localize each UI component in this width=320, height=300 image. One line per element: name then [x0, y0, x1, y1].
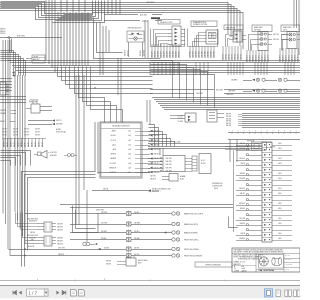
- svg-text:20B YEL: 20B YEL: [134, 247, 140, 249]
- svg-text:36B WT: 36B WT: [24, 128, 29, 130]
- svg-text:51B BLU: 51B BLU: [134, 231, 140, 233]
- svg-text:SUPPRESSOR: SUPPRESSOR: [212, 183, 223, 185]
- svg-text:4 BLU: 4 BLU: [278, 173, 282, 175]
- svg-text:51B BLU: 51B BLU: [154, 149, 160, 151]
- wire enclosures option groups: [151, 29, 218, 47]
- svg-text:51B OPN: 51B OPN: [101, 212, 107, 214]
- wire junction dots bottom lines: [24, 247, 109, 256]
- svg-text:36B/XX: 36B/XX: [0, 31, 6, 33]
- svg-text:4 BLU: 4 BLU: [278, 148, 282, 150]
- svg-text:21B TN: 21B TN: [42, 142, 44, 147]
- svg-text:54B RED: 54B RED: [134, 238, 140, 240]
- sender S1 with contact: [25, 211, 204, 217]
- wire misc verticals center: [118, 20, 148, 122]
- svg-text:34B YEL: 34B YEL: [30, 232, 36, 234]
- svg-text:53B GRN: 53B GRN: [57, 243, 63, 245]
- svg-text:4X: 4X: [234, 268, 236, 270]
- svg-text:CHECKED: CHECKED: [285, 259, 291, 261]
- svg-text:41B TN: 41B TN: [103, 189, 108, 191]
- svg-text:54B BLK: 54B BLK: [240, 173, 245, 175]
- svg-text:36B WHT: 36B WHT: [173, 51, 175, 58]
- svg-text:62B YEL: 62B YEL: [232, 54, 234, 60]
- wire left bundle B: [15, 75, 25, 244]
- label HORN ELECTRICAL: [56, 129, 66, 133]
- svg-text:FRONT HIGH (DOWN/UP): FRONT HIGH (DOWN/UP): [184, 255, 202, 257]
- svg-text:36B WHT: 36B WHT: [164, 51, 166, 58]
- svg-text:4 BLU: 4 BLU: [278, 208, 282, 210]
- svg-text:13B BLK: 13B BLK: [240, 208, 245, 210]
- wire pin row y132: [228, 130, 300, 139]
- switch group SW VOLT OPTS: [154, 20, 186, 47]
- svg-text:36B WT: 36B WT: [2, 131, 7, 133]
- svg-text:36B WT: 36B WT: [13, 131, 18, 133]
- svg-text:62B WHT: 62B WHT: [101, 231, 107, 233]
- svg-text:21B OPN: 21B OPN: [239, 148, 245, 150]
- button next-page: [56, 290, 59, 294]
- bus mid collector: [8, 61, 300, 73]
- view single-page selected: [265, 288, 273, 296]
- svg-text:21B TN: 21B TN: [11, 142, 13, 147]
- svg-text:62B TN: 62B TN: [56, 120, 62, 122]
- wire left bundle A: [3, 40, 10, 256]
- svg-text:36B YEL: 36B YEL: [226, 116, 232, 118]
- svg-text:21B BRN: 21B BRN: [231, 80, 237, 82]
- svg-text:10B OPN: 10B OPN: [166, 164, 172, 166]
- wire left corner fan into collector: [1, 51, 26, 76]
- svg-text:SENSOR: SENSOR: [109, 167, 117, 169]
- wire top mid verticals: [108, 0, 120, 14]
- svg-text:36B RED: 36B RED: [239, 238, 245, 240]
- svg-text:62B WHT: 62B WHT: [239, 203, 245, 205]
- wire staircase lower-mid: [149, 125, 175, 147]
- label tags left edge y110: [0, 110, 16, 123]
- connector left edge: [0, 82, 9, 95]
- svg-text:36B WT: 36B WT: [24, 131, 29, 133]
- junction box GRD RD HIGH AUTO: [106, 256, 147, 267]
- svg-text:138B OPN: 138B OPN: [226, 94, 233, 96]
- wire right-edge verticals: [294, 0, 299, 55]
- svg-text:21B BRN: 21B BRN: [202, 51, 204, 57]
- connector box LH DAT AND OPT: [26, 55, 45, 63]
- title block: [232, 248, 300, 272]
- wire 41B TN: [92, 187, 171, 192]
- svg-text:62B RED: 62B RED: [56, 124, 63, 126]
- svg-text:138B WHT: 138B WHT: [228, 90, 235, 92]
- wire enclosure lighting: [94, 18, 161, 76]
- wire middle staircase interchange: [151, 61, 215, 108]
- svg-text:LINE SENS: LINE SENS: [146, 2, 154, 4]
- svg-text:36B WHT: 36B WHT: [179, 51, 181, 58]
- svg-text:10B OPN: 10B OPN: [166, 158, 172, 160]
- svg-text:21B TN: 21B TN: [35, 142, 37, 147]
- svg-text:62B YEL: 62B YEL: [235, 54, 237, 60]
- connector block HI LO BLOW: [148, 148, 211, 174]
- speaker group SPEAKER OPTION: [190, 21, 218, 58]
- svg-text:4: 4: [37, 279, 38, 281]
- wire strip right leads: [272, 143, 292, 240]
- wire vertical trunk bundle upper-left: [46, 0, 88, 72]
- svg-text:36B WHT: 36B WHT: [167, 51, 169, 58]
- wire url-switch lines: [150, 90, 300, 96]
- svg-text:CLOCK2: CLOCK2: [110, 163, 116, 165]
- svg-text:53B GRN: 53B GRN: [57, 240, 63, 242]
- svg-text:72B OPN: 72B OPN: [101, 222, 107, 224]
- wire horn feed arrows: [28, 119, 63, 125]
- node labels left edge: [0, 29, 6, 36]
- svg-text:36B YEL: 36B YEL: [127, 50, 129, 56]
- diode assembly D1: [170, 113, 196, 123]
- wire interchange corners x88-104: [53, 1, 105, 23]
- svg-text:21B OPN: 21B OPN: [0, 110, 6, 112]
- svg-text:4 BLU: 4 BLU: [278, 233, 282, 235]
- svg-text:36B WHT: 36B WHT: [152, 51, 154, 58]
- svg-text:LOW OPN: LOW OPN: [50, 152, 57, 154]
- svg-text:20B YEL: 20B YEL: [104, 247, 110, 249]
- svg-text:UPPER (OVERRIDE): UPPER (OVERRIDE): [205, 265, 221, 267]
- svg-text:(OPTION): (OPTION): [254, 29, 261, 31]
- bus top main run: [0, 3, 243, 13]
- svg-text:CLOCK: CLOCK: [111, 140, 117, 142]
- relay LOW STOCK HORN OPTION: [26, 100, 52, 114]
- svg-text:54B GRN: 54B GRN: [134, 222, 140, 224]
- svg-text:53B OPN: 53B OPN: [57, 226, 63, 228]
- svg-text:36B YEL: 36B YEL: [106, 261, 112, 263]
- svg-text:56B YEL: 56B YEL: [150, 175, 156, 177]
- svg-text:21B TN: 21B TN: [14, 142, 16, 147]
- svg-text:1 / 7: 1 / 7: [29, 290, 38, 295]
- lamp group HEADLIGHT OPTION 1: [247, 25, 288, 62]
- svg-text:20B YEL: 20B YEL: [134, 254, 140, 256]
- svg-text:21B TN: 21B TN: [18, 142, 20, 147]
- label box UPPER OVERRIDE: [195, 262, 232, 267]
- wire label stack horn comb: [2, 138, 46, 147]
- svg-text:36B WT: 36B WT: [13, 128, 18, 130]
- wire top bus right bends: [228, 2, 243, 49]
- connector J1 strip: [262, 142, 272, 242]
- wire label stack right: [226, 114, 242, 128]
- wire ecu boundary: [233, 150, 235, 232]
- svg-text:36B WT: 36B WT: [35, 131, 40, 133]
- svg-text:URL SWIT: URL SWIT: [216, 90, 223, 92]
- svg-text:(ECU): (ECU): [214, 188, 219, 190]
- svg-text:= OB: = OB: [241, 266, 244, 268]
- svg-text:62B YEL: 62B YEL: [238, 54, 240, 60]
- svg-text:HIGH BLK: HIGH BLK: [50, 155, 57, 157]
- svg-text:21B BRN: 21B BRN: [190, 51, 192, 57]
- svg-text:4 BLU: 4 BLU: [278, 178, 282, 180]
- label band horn area: [2, 128, 40, 136]
- svg-text:47TY OPN: 47TY OPN: [58, 247, 65, 249]
- svg-text:36B BLK: 36B BLK: [140, 50, 142, 56]
- svg-text:4 BLU: 4 BLU: [278, 158, 282, 160]
- svg-text:21B TN: 21B TN: [28, 142, 30, 147]
- svg-text:36B WHT: 36B WHT: [239, 188, 245, 190]
- enclosure cab box: [22, 122, 151, 267]
- svg-text:21B BRN: 21B BRN: [211, 51, 213, 57]
- svg-text:21B GRN: 21B GRN: [239, 178, 245, 180]
- svg-text:4 BLU: 4 BLU: [278, 223, 282, 225]
- svg-text:GRY YEL: GRY YEL: [273, 34, 279, 36]
- fan group FAN OPTION: [223, 25, 246, 60]
- svg-text:36B WHT: 36B WHT: [161, 51, 163, 58]
- svg-text:21B TN: 21B TN: [4, 142, 6, 147]
- lamp row 138B WHT: [226, 89, 300, 96]
- bus right block y113-127: [242, 114, 300, 128]
- svg-text:4 BLU: 4 BLU: [278, 188, 282, 190]
- svg-text:21B TN: 21B TN: [21, 142, 23, 147]
- svg-text:21B BRN: 21B BRN: [193, 51, 195, 57]
- svg-text:YEL/GRN: YEL/GRN: [196, 93, 203, 95]
- svg-text:36B WT: 36B WT: [35, 128, 40, 130]
- icon previous-view: [71, 289, 77, 296]
- svg-text:36B YEL: 36B YEL: [240, 143, 246, 145]
- svg-text:51B BLU: 51B BLU: [154, 172, 160, 174]
- wire feeders to ecu: [60, 205, 233, 208]
- svg-text:(OPT): (OPT): [283, 29, 288, 31]
- svg-text:21B OPN: 21B OPN: [239, 218, 245, 220]
- wire strip left leads: [236, 143, 262, 241]
- toolbar navigation bar: [0, 285, 300, 298]
- svg-text:LOWER: LOWER: [234, 270, 239, 272]
- svg-text:62B TN: 62B TN: [240, 233, 245, 235]
- svg-text:FRONT HIGH SPEED: FRONT HIGH SPEED: [184, 249, 200, 251]
- horn H1: [34, 151, 77, 159]
- wire BUS OPN line: [0, 36, 62, 53]
- sender S5 with contact: [9, 246, 200, 252]
- wire label stack SW VOLT: [152, 44, 181, 58]
- svg-text:13B WHT: 13B WHT: [239, 158, 245, 160]
- svg-text:36B YEL: 36B YEL: [106, 264, 112, 266]
- svg-text:21B BRN: 21B BRN: [205, 51, 207, 57]
- svg-text:36B WT: 36B WT: [2, 134, 7, 136]
- sender S3 with contact: [70, 230, 199, 236]
- svg-text:BUS OPN: BUS OPN: [17, 36, 25, 38]
- bus y143-149: [148, 140, 262, 148]
- svg-text:4 BLU: 4 BLU: [278, 203, 282, 205]
- svg-text:21B TN: 21B TN: [25, 142, 27, 147]
- svg-text:4 BLU: 4 BLU: [278, 238, 282, 240]
- svg-text:1/C RED: 1/C RED: [178, 121, 184, 123]
- svg-text:GRY BLU: GRY BLU: [273, 39, 279, 41]
- relay 4WD P2 block: [27, 235, 63, 248]
- svg-text:36B YEL: 36B YEL: [226, 114, 232, 116]
- svg-text:21B TN: 21B TN: [39, 142, 41, 147]
- svg-text:GRD RD HIGH: GRD RD HIGH: [138, 260, 147, 262]
- svg-text:10B OPN: 10B OPN: [166, 161, 172, 163]
- button last-page: [62, 290, 66, 294]
- svg-text:53B OPN: 53B OPN: [57, 229, 63, 231]
- svg-text:4 BLU: 4 BLU: [278, 143, 282, 145]
- svg-text:36B YEL: 36B YEL: [226, 118, 232, 120]
- svg-text:36B WHT: 36B WHT: [158, 51, 160, 58]
- svg-text:20B YEL: 20B YEL: [240, 193, 246, 195]
- svg-text:AUXILIARY DISPLAY: AUXILIARY DISPLAY: [112, 124, 130, 127]
- svg-text:36B WT: 36B WT: [35, 134, 40, 136]
- view facing: [285, 290, 288, 296]
- svg-text:62B YEL: 62B YEL: [223, 54, 225, 60]
- svg-text:21B RED: 21B RED: [0, 113, 6, 115]
- view continuous-facing: [294, 290, 297, 296]
- status strip: [0, 298, 300, 300]
- svg-text:54B BLK: 54B BLK: [134, 212, 140, 214]
- svg-text:36B/XX: 36B/XX: [0, 29, 6, 31]
- view continuous: [276, 290, 280, 296]
- wire override link: [229, 217, 238, 228]
- svg-text:36B WHT: 36B WHT: [155, 51, 157, 58]
- svg-text:36B TN: 36B TN: [0, 121, 5, 123]
- svg-text:21B TN: 21B TN: [32, 142, 34, 147]
- svg-text:21B BRN: 21B BRN: [199, 51, 201, 57]
- svg-text:36B WHT: 36B WHT: [170, 51, 172, 58]
- svg-text:53B GRN: 53B GRN: [57, 237, 63, 239]
- alarm box: [150, 174, 186, 182]
- display unit AUXILIARY DISPLAY: [100, 122, 160, 178]
- svg-text:21B BRN: 21B BRN: [196, 51, 198, 57]
- icon next-view: [79, 289, 85, 296]
- lamp group LIGHTING ADJUST: [124, 27, 145, 57]
- svg-text:62B BLK: 62B BLK: [101, 238, 107, 240]
- sender S4 with contact: [70, 237, 199, 243]
- svg-text:ILLUM+: ILLUM+: [110, 135, 116, 137]
- svg-text:62B YEL: 62B YEL: [241, 54, 243, 60]
- svg-text:SPEED: SPEED: [111, 154, 117, 156]
- button first-page: [13, 290, 16, 294]
- wire verticals descending from collector: [150, 62, 294, 75]
- svg-text:62B TN: 62B TN: [240, 163, 245, 165]
- connector RES RELAY box: [225, 139, 276, 162]
- module Q1: [207, 110, 224, 122]
- button prev-page: [19, 290, 22, 294]
- node tag small top-mid: [151, 17, 160, 19]
- svg-text:36B WT: 36B WT: [2, 128, 7, 130]
- svg-text:21B BRN: 21B BRN: [214, 51, 216, 57]
- svg-text:51B BLU: 51B BLU: [154, 154, 160, 156]
- svg-text:BLOW: BLOW: [201, 163, 206, 165]
- page field: [27, 289, 49, 296]
- svg-text:10B OPN: 10B OPN: [166, 167, 172, 169]
- svg-text:36B WT: 36B WT: [24, 134, 29, 136]
- junction box lower-left nested: [73, 190, 105, 246]
- svg-text:4 BLU: 4 BLU: [278, 163, 282, 165]
- svg-text:4 BLU: 4 BLU: [278, 218, 282, 220]
- lamp group HEADLIGHT OPTION 2: [280, 25, 300, 62]
- wire verticals x76-84: [76, 75, 84, 225]
- svg-text:36B WT: 36B WT: [13, 134, 18, 136]
- svg-text:36B YEL: 36B YEL: [226, 121, 232, 123]
- svg-text:21B BRN: 21B BRN: [208, 51, 210, 57]
- svg-text:4 BLU: 4 BLU: [278, 193, 282, 195]
- svg-text:36B WHT: 36B WHT: [124, 50, 126, 56]
- svg-text:56B BLK: 56B BLK: [150, 178, 156, 180]
- wire aux-swl lines: [104, 2, 162, 23]
- svg-text:36B WHT: 36B WHT: [176, 51, 178, 58]
- svg-text:10B OPN: 10B OPN: [166, 171, 172, 173]
- svg-text:36B YEL: 36B YEL: [226, 125, 232, 127]
- wire cluster left feeds: [16, 213, 39, 244]
- svg-text:36B YEL: 36B YEL: [226, 123, 232, 125]
- lamp row 21B BRN: [231, 78, 300, 81]
- wire staircase fan left-mid: [58, 67, 153, 126]
- svg-text:= 4.0B: = 4.0B: [241, 268, 245, 270]
- svg-text:53B OPN: 53B OPN: [57, 223, 63, 225]
- svg-text:51B BLU: 51B BLU: [240, 223, 245, 225]
- sender S6 with contact: [10, 253, 202, 259]
- relay 4WD P1 block: [27, 217, 63, 234]
- svg-text:LOW STOCK: LOW STOCK: [29, 100, 38, 102]
- svg-text:CONTROLLER: CONTROLLER: [212, 185, 223, 187]
- svg-text:REF VEHICLE UP: REF VEHICLE UP: [27, 235, 38, 237]
- svg-text:FRONT HIGH (UP/D): FRONT HIGH (UP/D): [184, 239, 199, 241]
- label SUPPRESSOR CONTROLLER ECU: [212, 183, 223, 190]
- wire nested corners x0-30 y150: [1, 151, 31, 166]
- bus mid-right y97-109: [152, 98, 300, 110]
- page border bottom: [0, 279, 300, 281]
- sender S2 with contact: [70, 221, 199, 227]
- svg-text:21B TN: 21B TN: [7, 142, 9, 147]
- svg-text:62B YEL: 62B YEL: [229, 54, 231, 60]
- svg-text:3: 3: [104, 279, 105, 281]
- wire misc horizontals left: [0, 71, 26, 102]
- bus top-left feeders: [1, 2, 93, 20]
- svg-text:21B/XX: 21B/XX: [0, 33, 6, 35]
- svg-text:62B YEL: 62B YEL: [226, 54, 228, 60]
